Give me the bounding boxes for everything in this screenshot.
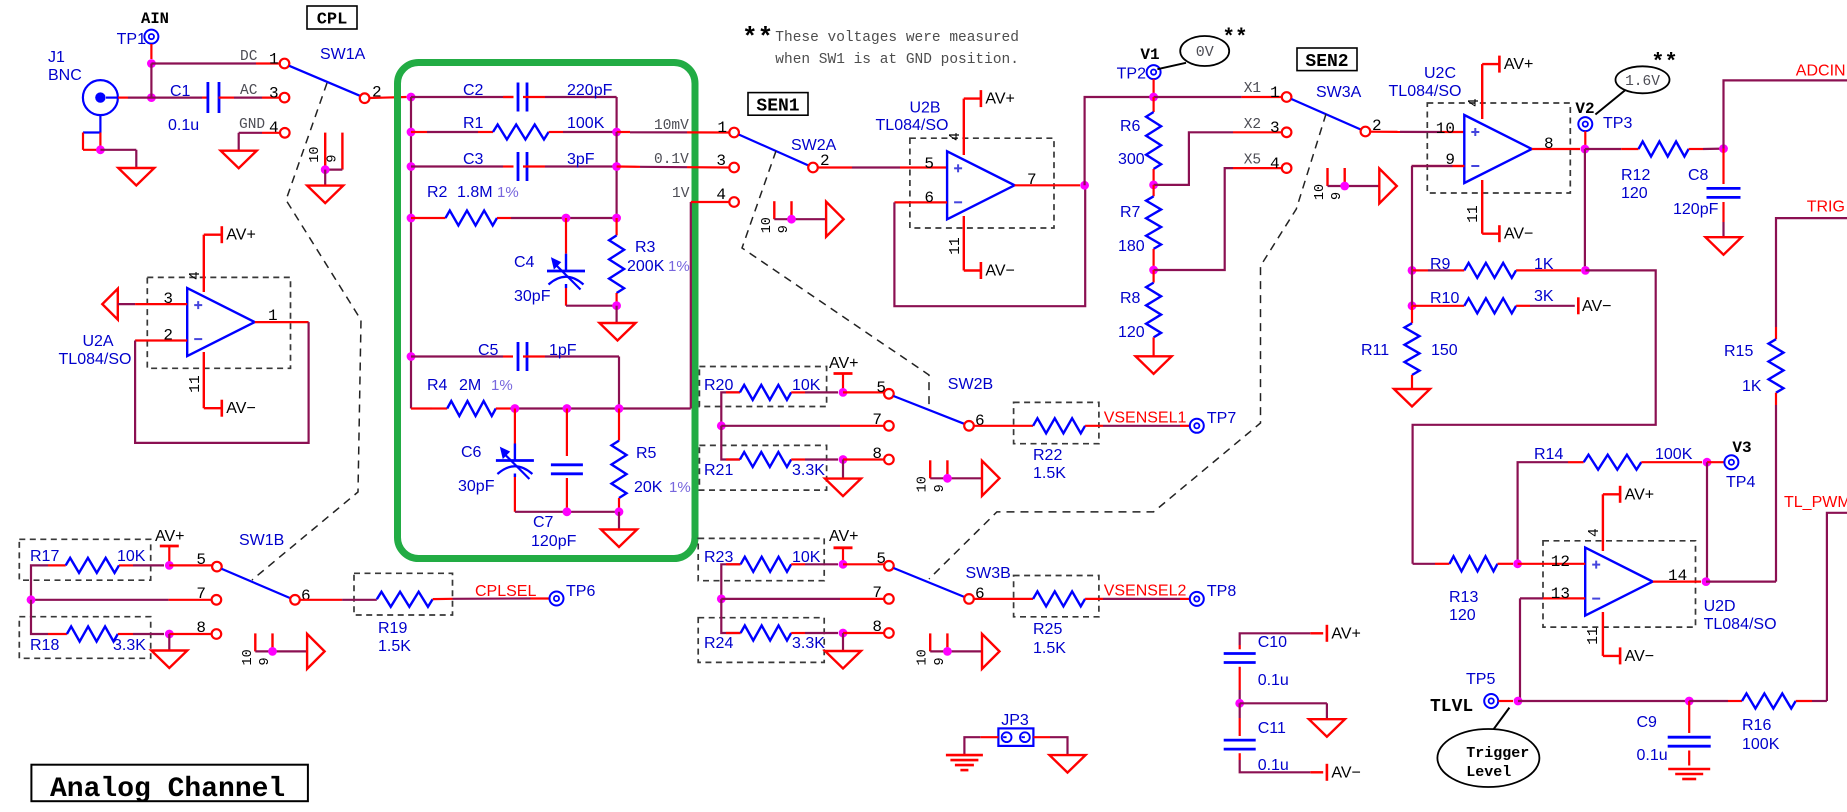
pin 7 SW2B: [872, 411, 893, 431]
label AIN: [141, 10, 169, 28]
svg-text:R16: R16: [1742, 717, 1771, 734]
node R3 bottom: [612, 301, 621, 310]
connector J1 BNC: [48, 49, 118, 115]
svg-text:TP6: TP6: [566, 583, 595, 600]
svg-text:3.3K: 3.3K: [792, 462, 825, 479]
wire to pin5 SW2B: [843, 391, 884, 393]
wire TP2 stub: [1152, 79, 1154, 97]
wire R18 to ground: [168, 634, 170, 651]
pin GND 4: [239, 117, 290, 138]
svg-text:4: 4: [948, 132, 964, 141]
svg-text:R23: R23: [704, 549, 733, 566]
wire R21 to ground: [842, 460, 844, 479]
power pins 10 9 SW2A: [760, 201, 844, 237]
testpoint TP1: [117, 30, 159, 48]
node R13 right: [1513, 559, 1522, 568]
svg-text:X2: X2: [1244, 117, 1261, 133]
node C9: [1685, 697, 1694, 706]
power AV- U2D: [1620, 647, 1654, 665]
svg-text:ADCIN: ADCIN: [1796, 63, 1846, 80]
label SEN1: [748, 93, 808, 117]
svg-text:R15: R15: [1724, 343, 1753, 360]
svg-text:BNC: BNC: [48, 67, 82, 84]
svg-text:X1: X1: [1244, 81, 1261, 97]
node C3 bus: [407, 162, 416, 171]
svg-text:DC: DC: [240, 49, 258, 65]
svg-text:1%: 1%: [668, 258, 690, 275]
testpoint TP4: [1724, 455, 1755, 491]
svg-text:11: 11: [188, 375, 204, 392]
ground SW3B: [825, 651, 861, 669]
svg-text:CPL: CPL: [317, 11, 348, 30]
svg-text:TLVL: TLVL: [1430, 697, 1473, 717]
resistor R17: [30, 548, 164, 600]
pin 11 U2B: [948, 216, 981, 271]
node R24 right: [839, 629, 848, 638]
resistor R7: [1118, 185, 1161, 270]
pin 1 U2A: [255, 307, 309, 325]
svg-text:8: 8: [872, 618, 882, 636]
svg-text:J1: J1: [48, 49, 65, 66]
node C3 right: [612, 162, 621, 171]
svg-text:8: 8: [872, 445, 882, 463]
wire to pin8 SW1B: [169, 633, 211, 635]
svg-text:**: **: [742, 23, 773, 53]
svg-text:SW1A: SW1A: [320, 46, 366, 63]
svg-text:R3: R3: [635, 239, 656, 256]
svg-text:120pF: 120pF: [1673, 201, 1719, 218]
svg-text:C6: C6: [461, 444, 482, 461]
ground C10-C11: [1309, 719, 1345, 737]
bubble 1.6V: [1595, 50, 1677, 115]
svg-text:Analog Channel: Analog Channel: [50, 774, 285, 805]
resistor R25: [974, 591, 1190, 657]
svg-text:AV−: AV−: [226, 400, 256, 417]
pin 11 U2D: [1586, 612, 1620, 656]
svg-text:CPLSEL: CPLSEL: [475, 583, 536, 600]
svg-text:6: 6: [301, 587, 311, 605]
label V3: [1732, 439, 1751, 457]
power AV+ U2B: [981, 90, 1015, 108]
pin AC 3: [240, 83, 289, 103]
svg-text:1K: 1K: [1534, 256, 1554, 273]
title Analog Channel: [31, 765, 308, 805]
wire X1 tap: [1154, 96, 1282, 98]
node R7-R8: [1149, 266, 1158, 275]
wire TP1 stub: [150, 44, 152, 59]
wire R3 to ground: [615, 306, 617, 323]
node R17 right: [165, 561, 174, 570]
testpoint TP3: [1578, 115, 1632, 132]
wire R24 to ground: [842, 633, 844, 651]
wire R9 to R13: [1413, 270, 1656, 563]
pin 3 U2A: [135, 290, 187, 308]
pin 11 U2C: [1466, 180, 1499, 234]
ground R8: [1136, 356, 1172, 374]
wire V3 down: [1706, 462, 1708, 581]
svg-text:C7: C7: [533, 514, 554, 531]
svg-text:C8: C8: [1688, 167, 1709, 184]
pin 4 U2D: [1587, 494, 1620, 551]
wire mid to ground: [1240, 703, 1327, 719]
note text line1: [775, 30, 1019, 46]
svg-text:3: 3: [269, 85, 279, 103]
svg-text:SW1B: SW1B: [239, 532, 284, 549]
pin 8 SW2B: [872, 445, 893, 464]
testpoint TP5: [1466, 671, 1498, 708]
svg-text:6: 6: [975, 412, 985, 430]
svg-text:100K: 100K: [1655, 446, 1693, 463]
wire 1V tap: [691, 202, 730, 409]
svg-text:C4: C4: [514, 254, 535, 271]
pin 13 U2D: [1520, 585, 1585, 603]
node V3: [1703, 458, 1712, 467]
wire C4 bottom: [566, 305, 617, 307]
pin 8 U2C: [1532, 135, 1580, 153]
svg-text:7: 7: [1027, 171, 1037, 189]
testpoint TP6: [550, 583, 596, 606]
capacitor C3: [411, 151, 617, 181]
wire pin7 SW2B: [721, 425, 884, 427]
power AV+ U2C: [1499, 56, 1533, 74]
switch SW3A: [1291, 84, 1361, 130]
svg-text:Level: Level: [1466, 764, 1511, 781]
pin 4 U2C: [1467, 64, 1499, 119]
svg-text:TP4: TP4: [1726, 474, 1755, 491]
resistor R9: [1412, 256, 1581, 278]
power AV- R10: [1578, 297, 1611, 315]
svg-text:AV+: AV+: [1625, 486, 1655, 503]
node R1 bus: [407, 128, 416, 137]
op-amp U2D box: [1543, 541, 1696, 627]
resistor R21 box: [699, 445, 826, 490]
bubble Trigger Level: [1437, 708, 1539, 787]
switch SW2B: [894, 376, 994, 424]
ground R5: [601, 530, 637, 548]
linkage SW3A-SW3B: [929, 114, 1326, 579]
svg-text:AV−: AV−: [985, 263, 1015, 280]
label VSENSEL1: [1104, 410, 1187, 427]
node BNC shield: [96, 145, 105, 154]
wire right bus: [615, 132, 617, 218]
wire BNC shield: [83, 115, 100, 150]
svg-text:0.1u: 0.1u: [1258, 757, 1289, 774]
svg-text:SW2A: SW2A: [791, 137, 837, 154]
svg-text:TL_PWM: TL_PWM: [1784, 494, 1847, 511]
svg-text:3: 3: [1270, 119, 1280, 137]
resistor R22: [974, 418, 1190, 482]
svg-text:AV−: AV−: [1331, 764, 1361, 781]
svg-text:R20: R20: [704, 377, 733, 394]
node V2: [1581, 145, 1590, 154]
pin SW1A 2: [360, 84, 382, 103]
svg-text:AV+: AV+: [1331, 625, 1361, 642]
svg-text:SEN2: SEN2: [1305, 52, 1348, 72]
svg-text:AV+: AV+: [829, 355, 859, 372]
svg-text:150: 150: [1431, 342, 1458, 359]
pin 1 SW2A: [717, 119, 739, 137]
wire to pin8 SW3B: [843, 632, 884, 634]
svg-text:10K: 10K: [792, 549, 821, 566]
resistor R8: [1118, 270, 1161, 356]
capacitor C9: [1637, 701, 1711, 766]
svg-text:R21: R21: [704, 462, 733, 479]
wire pin7 SW3B: [721, 598, 884, 600]
power AV- C11: [1310, 764, 1361, 782]
op-amp U2D: [1585, 548, 1776, 633]
svg-text:SW3B: SW3B: [966, 565, 1011, 582]
svg-text:C3: C3: [463, 151, 484, 168]
capacitor C10: [1224, 633, 1311, 703]
svg-text:7: 7: [196, 585, 206, 603]
svg-text:3pF: 3pF: [567, 151, 595, 168]
svg-text:10: 10: [916, 649, 931, 665]
svg-text:10K: 10K: [117, 548, 146, 565]
svg-text:R10: R10: [1430, 290, 1459, 307]
svg-text:TP8: TP8: [1207, 583, 1236, 600]
capacitor C1: [168, 82, 219, 134]
ground R3: [600, 323, 636, 341]
op-amp U2C box: [1427, 103, 1570, 193]
resistor R21: [704, 426, 838, 479]
svg-text:AC: AC: [240, 83, 258, 99]
label VSENSEL2: [1104, 583, 1187, 600]
ground JP3 right: [1050, 755, 1086, 773]
node R23 right: [839, 560, 848, 569]
svg-text:AV−: AV−: [1504, 226, 1534, 243]
wire TRIG: [1776, 218, 1847, 327]
svg-text:AV+: AV+: [226, 227, 256, 244]
svg-text:3: 3: [716, 152, 726, 170]
svg-text:7: 7: [872, 411, 882, 429]
capacitor C6 trimmer: [458, 409, 534, 512]
wire C1 to AC pin: [219, 96, 282, 98]
svg-text:R17: R17: [30, 548, 59, 565]
svg-text:AV−: AV−: [1582, 298, 1612, 315]
svg-text:10: 10: [916, 476, 931, 492]
node U2B out: [1080, 181, 1089, 190]
svg-text:JP3: JP3: [1001, 712, 1029, 729]
svg-text:3.3K: 3.3K: [792, 635, 825, 652]
node TP2: [1149, 93, 1158, 102]
resistor R24: [704, 599, 838, 652]
svg-text:R11: R11: [1361, 342, 1389, 359]
linkage SW2A-SW2B: [742, 151, 929, 406]
pin 7 SW3B: [872, 584, 893, 604]
resistor R13: [1413, 556, 1513, 624]
svg-text:C11: C11: [1258, 720, 1286, 737]
resistor R1: [411, 115, 617, 140]
svg-text:6: 6: [975, 585, 985, 603]
wire V2 down: [1584, 149, 1586, 270]
op-amp U2B: [876, 100, 1015, 220]
pin 4 SW3A: [1270, 155, 1291, 173]
wire to pin8 SW2B: [843, 458, 884, 460]
node C7 bottom: [563, 507, 572, 516]
svg-text:6: 6: [924, 189, 934, 207]
svg-text:20K: 20K: [634, 479, 663, 496]
wire pin7 SW1B: [31, 599, 212, 601]
svg-text:AV+: AV+: [829, 528, 859, 545]
svg-text:R5: R5: [636, 445, 657, 462]
svg-text:R19: R19: [378, 620, 407, 637]
svg-text:3: 3: [163, 290, 173, 308]
power AV+ SW2B: [829, 355, 859, 392]
node R2-R3: [612, 214, 621, 223]
resistor R23: [704, 549, 838, 599]
svg-text:11: 11: [1586, 627, 1602, 644]
label TRIG: [1807, 199, 1845, 216]
capacitor C11: [1224, 703, 1311, 774]
note asterisks: [742, 23, 773, 53]
svg-text:R12: R12: [1621, 167, 1650, 184]
resistor R11: [1361, 306, 1458, 389]
svg-text:10: 10: [760, 217, 775, 233]
svg-text:30pF: 30pF: [458, 478, 495, 495]
resistor R19: [300, 592, 550, 655]
pin 5 U2B: [924, 155, 934, 173]
svg-text:R2: R2: [427, 184, 448, 201]
op-amp U2A box: [147, 277, 290, 368]
wire TLVL row: [1518, 700, 1685, 702]
power AV- U2B: [981, 262, 1015, 280]
svg-text:SEN1: SEN1: [756, 97, 799, 117]
wire AIN to DC pin: [151, 62, 279, 64]
svg-text:9: 9: [933, 657, 948, 665]
pin 7 SW1B: [196, 585, 221, 605]
svg-text:R24: R24: [704, 635, 733, 652]
svg-text:Trigger: Trigger: [1466, 745, 1529, 762]
svg-text:1: 1: [268, 307, 278, 325]
capacitor C7: [531, 409, 583, 551]
svg-text:4: 4: [188, 271, 204, 280]
svg-text:V3: V3: [1732, 439, 1751, 457]
resistor R23 box: [698, 538, 824, 580]
svg-text:R9: R9: [1430, 256, 1451, 273]
svg-text:1V: 1V: [672, 186, 690, 202]
pin 8 SW1B: [196, 619, 221, 639]
svg-text:9: 9: [258, 657, 273, 665]
resistor R19 box: [354, 573, 453, 615]
svg-text:4: 4: [1467, 98, 1483, 107]
pin 4 U2A: [188, 235, 222, 292]
svg-text:120: 120: [1118, 324, 1145, 341]
wire SW1A to attenuator: [369, 97, 406, 98]
capacitor C5: [411, 342, 619, 409]
svg-text:TP5: TP5: [1466, 671, 1495, 688]
switch SW1A: [289, 46, 365, 96]
svg-text:AV+: AV+: [155, 528, 185, 545]
svg-text:TP3: TP3: [1603, 115, 1632, 132]
svg-text:0.1u: 0.1u: [168, 117, 199, 134]
power AV- U2C: [1499, 225, 1533, 243]
svg-text:1pF: 1pF: [549, 342, 577, 359]
wire X5 tap: [1154, 168, 1282, 270]
wire to pin5 SW3B: [843, 563, 884, 565]
resistor R2: [411, 184, 617, 226]
pin 2 SW2A: [808, 152, 829, 172]
wire C6 bottom: [515, 511, 619, 513]
svg-text:R25: R25: [1033, 621, 1062, 638]
svg-text:when SW1 is at GND position.: when SW1 is at GND position.: [775, 52, 1019, 68]
svg-text:30pF: 30pF: [514, 288, 551, 305]
pin 2 SW3A out: [1361, 117, 1382, 136]
node SW2B bus: [717, 421, 726, 430]
wire U2B out up: [1085, 97, 1154, 185]
svg-text:120pF: 120pF: [531, 533, 577, 550]
resistor R4: [411, 377, 691, 416]
power pins 10 9 SW3B: [916, 633, 1000, 669]
wire V3 stub: [1707, 461, 1724, 463]
resistor R14: [1518, 446, 1702, 564]
ground SW2B: [825, 479, 861, 497]
svg-text:12: 12: [1551, 553, 1570, 571]
pin 2 U2A: [135, 327, 187, 345]
svg-text:TP2: TP2: [1117, 66, 1146, 83]
svg-text:9: 9: [777, 225, 792, 233]
resistor R16: [1689, 694, 1827, 754]
svg-text:10K: 10K: [792, 377, 821, 394]
node R2 bus: [407, 214, 416, 223]
pin 4 SW2A: [716, 186, 739, 207]
node R9 right: [1581, 266, 1590, 275]
svg-text:10mV: 10mV: [654, 118, 689, 134]
op-amp U2A: [59, 288, 255, 368]
node R6-R7: [1149, 181, 1158, 190]
svg-text:SW2B: SW2B: [948, 376, 993, 393]
node R4-R5: [615, 404, 624, 413]
resistor R5: [612, 409, 691, 512]
svg-text:0V: 0V: [1196, 44, 1214, 61]
input arrow U2A: [102, 289, 135, 320]
pin 7 U2B: [1015, 171, 1080, 189]
wire TP5 stub: [1498, 700, 1513, 702]
svg-text:SW3A: SW3A: [1316, 84, 1362, 101]
wire SW2A to U2B: [818, 166, 947, 168]
node SW3B bus: [717, 595, 726, 604]
label 0.1V: [654, 152, 689, 168]
pin 3 SW2A: [716, 152, 739, 172]
svg-text:1.5K: 1.5K: [378, 638, 411, 655]
svg-text:180: 180: [1118, 238, 1145, 255]
label 10mV: [654, 118, 689, 134]
wire AIN vertical: [150, 64, 152, 98]
svg-text:AV+: AV+: [1504, 56, 1534, 73]
testpoint TP2: [1117, 65, 1161, 82]
ground C9 earth: [1668, 769, 1710, 779]
svg-text:10: 10: [1313, 184, 1328, 200]
svg-text:3.3K: 3.3K: [113, 637, 146, 654]
wire 0.1V tap: [617, 167, 730, 168]
svg-text:R6: R6: [1120, 118, 1141, 135]
power pins 10 9 SW1A: [307, 133, 343, 204]
resistor R18: [30, 600, 164, 654]
wire SW3A to U2C: [1370, 131, 1464, 134]
label CPL: [307, 6, 357, 30]
resistor R22 box: [1014, 402, 1099, 443]
label V1: [1140, 46, 1159, 64]
jumper JP3: [998, 712, 1033, 746]
svg-text:9: 9: [1330, 192, 1345, 200]
label X2: [1244, 117, 1261, 133]
svg-text:0.1u: 0.1u: [1637, 747, 1668, 764]
resistor R18 box: [19, 617, 150, 659]
svg-text:TL084/SO: TL084/SO: [876, 117, 949, 134]
svg-text:1.5K: 1.5K: [1033, 465, 1066, 482]
wire TL_PWM: [1827, 513, 1847, 701]
node U2D out: [1702, 577, 1711, 586]
svg-text:8: 8: [1544, 135, 1554, 153]
